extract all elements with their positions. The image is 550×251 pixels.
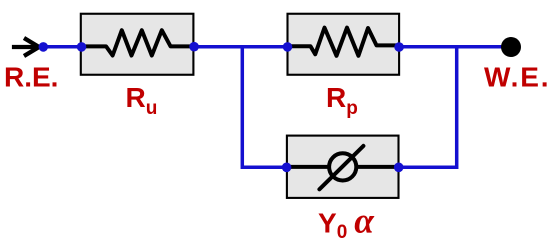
node: CPE left bbox=[282, 163, 292, 173]
svg-text:Y0α: Y0α bbox=[318, 200, 375, 243]
node: Rp left bbox=[283, 42, 293, 52]
wire: right branch down to CPE right bbox=[399, 45, 457, 167]
svg-text:Rp: Rp bbox=[326, 82, 358, 119]
node: Ru left bbox=[77, 42, 87, 52]
W.E. terminal dot bbox=[501, 37, 521, 57]
wire: input dot to Ru left bbox=[43, 45, 81, 49]
input arrow (R.E. lead) bbox=[12, 38, 39, 56]
CPE element Y0 (circle with slash) bbox=[287, 136, 399, 198]
svg-text:Ru: Ru bbox=[126, 82, 158, 119]
wire: Ru right to Rp left bbox=[194, 45, 287, 49]
node: Ru right bbox=[189, 42, 199, 52]
node: Rp right bbox=[394, 42, 404, 52]
svg-text:W.E.: W.E. bbox=[484, 61, 550, 92]
wire: Rp right to W.E. terminal bbox=[399, 45, 503, 49]
svg-text:R.E.: R.E. bbox=[4, 61, 58, 92]
wire: left branch down to CPE left bbox=[242, 45, 286, 167]
node: CPE right bbox=[394, 163, 404, 173]
resistor Rp bbox=[288, 14, 400, 75]
node: input dot bbox=[39, 42, 49, 52]
resistor Ru bbox=[81, 14, 194, 75]
